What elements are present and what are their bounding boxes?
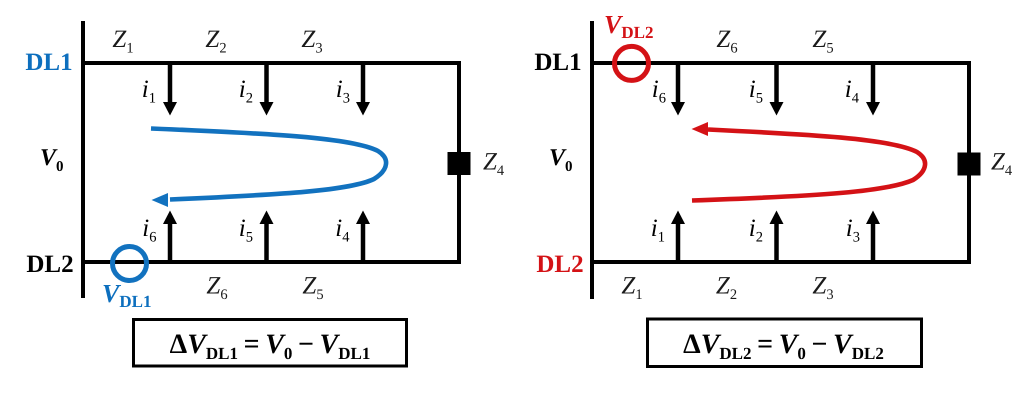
svg-text:i5: i5 bbox=[749, 76, 763, 107]
svg-text:DL2: DL2 bbox=[536, 251, 583, 278]
current arrow i6 (up), left panel bbox=[142, 211, 177, 263]
svg-text:Z6: Z6 bbox=[206, 273, 227, 304]
svg-text:DL1: DL1 bbox=[534, 49, 581, 76]
formula box: dV_DL1 = V0 - V_DL1 bbox=[134, 320, 407, 367]
impedance Z4 (black square), left panel bbox=[448, 152, 471, 175]
current loop arrow (blue hairpin), left panel bbox=[151, 129, 386, 208]
current arrow i3 (down) bbox=[336, 63, 370, 116]
svg-text:Z2: Z2 bbox=[716, 273, 737, 304]
svg-text:Z2: Z2 bbox=[205, 26, 226, 57]
voltmeter probe circle V_DL2 (red) bbox=[615, 46, 649, 80]
svg-text:i2: i2 bbox=[239, 76, 253, 107]
wire: left vertical bus (V0 feed), right panel bbox=[590, 21, 594, 299]
svg-text:i2: i2 bbox=[749, 215, 763, 246]
formula box: dV_DL2 = V0 - V_DL2 bbox=[648, 319, 922, 367]
svg-text:i4: i4 bbox=[335, 215, 350, 246]
current arrow i4 (down), right panel bbox=[845, 63, 880, 116]
svg-text:Z3: Z3 bbox=[301, 26, 322, 57]
current arrow i3 (up), right panel bbox=[846, 211, 880, 263]
svg-text:Z4: Z4 bbox=[991, 149, 1013, 180]
svg-text:i3: i3 bbox=[336, 76, 350, 107]
svg-text:VDL1: VDL1 bbox=[102, 279, 151, 311]
current arrow i1 (down) bbox=[142, 63, 177, 116]
svg-text:Z6: Z6 bbox=[716, 26, 737, 57]
svg-text:i6: i6 bbox=[652, 76, 666, 107]
svg-text:i5: i5 bbox=[239, 215, 253, 246]
svg-text:V0: V0 bbox=[40, 145, 64, 175]
svg-text:Z5: Z5 bbox=[812, 26, 833, 57]
svg-text:VDL2: VDL2 bbox=[604, 10, 653, 42]
current arrow i4 (up), left panel bbox=[335, 211, 370, 263]
svg-text:i1: i1 bbox=[651, 215, 665, 246]
svg-text:V0: V0 bbox=[549, 145, 573, 175]
svg-text:i3: i3 bbox=[846, 215, 860, 246]
current loop arrow (red hairpin), right panel bbox=[692, 122, 926, 201]
current arrow i5 (down), right panel bbox=[749, 63, 784, 116]
current arrow i2 (down) bbox=[239, 63, 274, 116]
current arrow i5 (up), left panel bbox=[239, 211, 274, 263]
svg-text:Z1: Z1 bbox=[621, 273, 642, 304]
svg-text:Z1: Z1 bbox=[112, 26, 133, 57]
current arrow i1 (up), right panel bbox=[651, 211, 685, 263]
wire: left vertical bus (V0 feed), left panel bbox=[81, 21, 85, 298]
svg-text:Z4: Z4 bbox=[483, 149, 505, 180]
svg-text:i4: i4 bbox=[845, 76, 860, 107]
svg-text:Z5: Z5 bbox=[302, 273, 323, 304]
svg-text:DL1: DL1 bbox=[25, 49, 72, 76]
wire: top distribution line DL1, left panel bbox=[81, 61, 461, 65]
impedance Z4 (black square), right panel bbox=[958, 153, 981, 176]
wire: top distribution line DL1, right panel bbox=[590, 61, 971, 65]
current arrow i2 (up), right panel bbox=[749, 211, 784, 263]
svg-text:Z3: Z3 bbox=[812, 273, 833, 304]
voltmeter probe circle V_DL1 (blue) bbox=[113, 247, 147, 281]
wire: right vertical branch with Z4, left panel bbox=[457, 61, 461, 264]
current arrow i6 (down), right panel bbox=[652, 63, 685, 116]
svg-text:i6: i6 bbox=[142, 215, 156, 246]
svg-text:i1: i1 bbox=[142, 76, 156, 107]
svg-text:DL2: DL2 bbox=[26, 251, 73, 278]
wire: bottom distribution line DL2, right panel bbox=[590, 260, 971, 264]
wire: bottom distribution line DL2, left panel bbox=[81, 260, 461, 264]
wire: right vertical branch with Z4, right panel bbox=[967, 61, 971, 264]
